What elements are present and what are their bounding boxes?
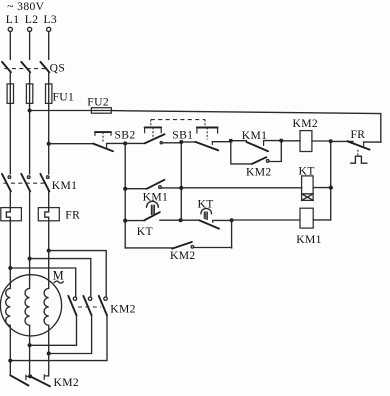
- motor winding 3: [44, 251, 49, 354]
- switch QS pole 1: [2, 62, 11, 72]
- SB1 cap2: [197, 127, 218, 129]
- node D: [279, 139, 283, 143]
- SB2 fixed tick and lead: [107, 142, 126, 144]
- fuse FU1 pole2: [26, 84, 32, 104]
- wire delta feed 3: [49, 251, 106, 297]
- wire FR down line3: [48, 221, 50, 251]
- switch QS pole 3: [40, 62, 49, 72]
- wire delta return 3: [10, 315, 107, 360]
- QS linkage: [5, 68, 46, 70]
- wire line2 KM1 down: [29, 191, 31, 258]
- node selfhold right: [179, 186, 183, 190]
- wire KM1 to FR pole1: [9, 191, 11, 207]
- SB1 cap1: [145, 126, 162, 128]
- SB2 cap: [95, 131, 111, 133]
- svg-text:~ 380V: ~ 380V: [7, 0, 44, 13]
- wire L1 drop: [9, 32, 11, 60]
- node line3 star tap: [47, 352, 51, 356]
- svg-text:KM2: KM2: [246, 166, 272, 179]
- wire KT coil feed: [181, 187, 301, 189]
- svg-text:KT: KT: [198, 198, 214, 211]
- wire delta feed 1: [10, 268, 75, 297]
- contact KM1 selfhold: [125, 188, 147, 190]
- node line3 delta tap: [47, 249, 51, 253]
- contactor KM2 delta pole2: [88, 297, 91, 300]
- node B: [179, 140, 183, 144]
- svg-text:SB1: SB1: [172, 129, 193, 142]
- wire node A vertical: [124, 143, 126, 248]
- contactor KM2 star contact2: [30, 376, 50, 386]
- wire top control bus: [111, 111, 381, 143]
- pushbutton SB2 blade: [93, 144, 113, 152]
- pushbutton SB1 contact1: [125, 142, 145, 144]
- wire right common vertical: [330, 141, 332, 220]
- contact KM2 aux NO branch: [231, 141, 252, 164]
- node selfhold left: [123, 187, 127, 191]
- coil KM1: [300, 208, 313, 228]
- svg-text:L3: L3: [44, 13, 58, 26]
- svg-text:QS: QS: [50, 61, 66, 74]
- svg-text:KM1: KM1: [242, 129, 268, 142]
- terminal L3: [47, 27, 51, 31]
- fuse FU1 pole3: [46, 84, 52, 104]
- terminal L2: [28, 27, 32, 31]
- svg-text:KM2: KM2: [110, 303, 136, 316]
- node line2 star tap: [28, 343, 32, 347]
- wire L3 control tap: [47, 142, 51, 146]
- svg-text:SB2: SB2: [115, 128, 136, 141]
- svg-text:KM2: KM2: [170, 249, 196, 262]
- svg-text:L2: L2: [25, 13, 39, 26]
- contact KM2 bypass NO: [125, 247, 172, 249]
- svg-text:KT: KT: [137, 225, 153, 238]
- fuse FU1 pole1: [7, 84, 13, 104]
- svg-text:M: M: [53, 268, 64, 282]
- wire QS to FU1 pole1: [9, 72, 11, 84]
- wire delta return 1: [30, 315, 77, 345]
- pushbutton SB1 contact2: [181, 141, 195, 143]
- node L2/FU2 tap: [28, 109, 32, 113]
- svg-text:FU2: FU2: [87, 95, 109, 108]
- SB2 stem: [102, 132, 104, 143]
- wire FR down line1: [9, 221, 11, 268]
- wire KM2 bypass vertical: [231, 220, 233, 248]
- contactor KM1 main pole2: [27, 176, 30, 179]
- motor M circle: [0, 275, 61, 336]
- KM1 main linkage: [4, 182, 46, 184]
- wire L2 to FU2: [30, 110, 92, 112]
- wire line3 to star contact: [48, 354, 50, 376]
- relay FR heater box2: [38, 208, 59, 221]
- node KM1 coil rung: [230, 218, 234, 222]
- svg-text:L1: L1: [6, 13, 20, 26]
- contactor KM1 main pole1: [8, 176, 11, 179]
- wire node B vertical: [180, 142, 182, 220]
- svg-text:KM2: KM2: [54, 376, 80, 389]
- wire delta feed 2: [30, 259, 91, 297]
- wire delta return 2: [49, 315, 92, 353]
- node line1 delta tap: [8, 266, 12, 270]
- terminal L1: [8, 27, 12, 31]
- wire line2 to star contact: [29, 345, 31, 376]
- relay FR contact NC: [331, 140, 353, 142]
- node line1 star tap: [8, 359, 12, 363]
- motor winding 2: [25, 259, 30, 346]
- switch QS pole 2: [21, 62, 30, 72]
- node KT right: [329, 186, 333, 190]
- node line2 delta tap: [28, 257, 32, 261]
- wire L3 drop: [48, 32, 50, 60]
- svg-text:KT: KT: [299, 164, 315, 177]
- coil KT: [302, 176, 314, 194]
- wire QS to FU1 pole2: [29, 72, 31, 84]
- node A: [123, 141, 127, 145]
- relay FR heater box1: [1, 208, 22, 221]
- node KT rung right: [179, 218, 183, 222]
- contact KT delayed NC: [181, 219, 200, 221]
- contactor KM2 star contact1: [10, 375, 28, 385]
- contactor KM2 delta pole1: [73, 297, 76, 300]
- coil KM2: [281, 140, 300, 142]
- wire line1 to star contact: [9, 361, 11, 376]
- node KT rung left: [123, 219, 127, 223]
- contactor KM2 delta pole3: [104, 297, 107, 300]
- contact KM1 aux NC: [231, 140, 247, 142]
- wire QS to FU1 pole3: [48, 72, 50, 84]
- node E: [329, 139, 333, 143]
- svg-text:FR: FR: [351, 128, 366, 141]
- SB1 linkage: [151, 119, 205, 121]
- wire KM1 to FR pole3: [48, 191, 50, 207]
- svg-text:KM1: KM1: [296, 233, 322, 246]
- wire L2 drop: [29, 32, 31, 60]
- node star junction: [28, 374, 32, 378]
- fuse FU2: [91, 108, 111, 114]
- wire KM1 coil feed: [232, 219, 300, 221]
- svg-text:KM1: KM1: [52, 179, 78, 192]
- contact KT delayed NO: [125, 220, 144, 222]
- contactor KM1 main pole3: [47, 176, 50, 179]
- node C: [229, 139, 233, 143]
- label motor tilde: [54, 281, 63, 283]
- motor winding 1: [6, 268, 11, 361]
- svg-text:FR: FR: [65, 208, 80, 221]
- KM2 delta linkage: [78, 306, 101, 308]
- svg-text:FU1: FU1: [53, 90, 75, 103]
- svg-text:KM2: KM2: [293, 117, 319, 130]
